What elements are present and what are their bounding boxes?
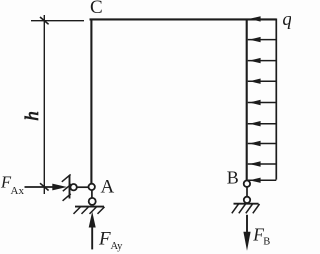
svg-text:C: C (90, 0, 103, 18)
svg-text:B: B (263, 237, 270, 248)
svg-text:Ay: Ay (111, 241, 124, 252)
svg-text:q: q (282, 9, 291, 30)
svg-text:B: B (227, 168, 239, 188)
svg-text:F: F (98, 229, 111, 250)
svg-text:h: h (22, 111, 43, 121)
svg-text:A: A (101, 177, 115, 198)
svg-text:Ax: Ax (11, 185, 25, 197)
